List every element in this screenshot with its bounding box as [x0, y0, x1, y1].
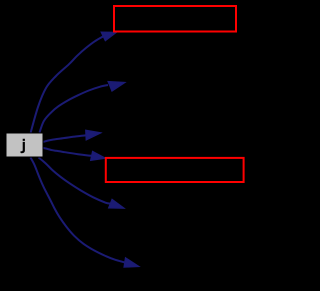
wire edge j->node1 [31, 36, 104, 132]
arrowhead 6 [124, 258, 139, 268]
node box top (red, truncated node) [114, 6, 236, 32]
wire edge j->node2 [40, 85, 109, 133]
arrowhead 2 [108, 81, 125, 91]
wire edge j->node6 [31, 158, 125, 263]
arrowhead 1 [101, 32, 117, 41]
arrowhead 5 [109, 199, 125, 208]
wire edge j->node4 [43, 148, 92, 156]
node box middle (red, truncated node) [106, 158, 244, 182]
label j (drawn glyph) [21, 139, 25, 153]
wire edge j->node3 [43, 135, 86, 142]
arrowhead 3 [86, 130, 102, 140]
arrowhead 4 [91, 151, 106, 160]
node j (current, gray) [6, 133, 43, 157]
wire edge j->node5 [39, 158, 111, 204]
